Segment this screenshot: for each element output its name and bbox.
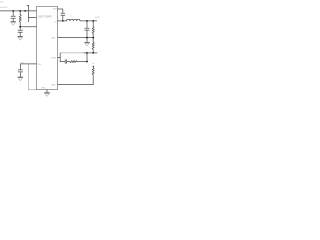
node dot out 1 (86, 20, 88, 22)
node dot rail 3 (24, 10, 26, 12)
ground (C4) (85, 42, 90, 46)
svg-text:GND: GND (41, 88, 46, 90)
wire COMP pin (58, 56, 61, 58)
wire FB rail (58, 37, 94, 39)
ground (C1) (11, 22, 16, 26)
wire GND rail bottom right (58, 84, 94, 86)
svg-text:SS: SS (38, 64, 41, 66)
node dot comp join (86, 52, 88, 54)
node dot rail 2 (19, 10, 21, 12)
resistor R4 comp (70, 61, 87, 63)
resistor R5 load (92, 68, 94, 85)
wire comp split (59, 53, 61, 62)
svg-text:GND: GND (51, 84, 56, 86)
wire STB pin2 (27, 5, 37, 22)
wire comp top (60, 52, 84, 54)
wire bottom GND pin (46, 90, 48, 93)
svg-text:VOUT: VOUT (95, 17, 100, 19)
capacitor C3 bootstrap (61, 13, 65, 21)
svg-text:COMP: COMP (51, 57, 57, 59)
resistor R1 input (19, 11, 21, 26)
wire SS pin (20, 63, 36, 65)
capacitor C1 input (11, 11, 15, 21)
capacitor C5 comp (60, 60, 70, 64)
svg-text:LX: LX (54, 21, 57, 23)
wire output (80, 20, 97, 22)
svg-text:Vcc=12V: Vcc=12V (0, 7, 8, 9)
node dot LX (62, 20, 64, 22)
node dot out 2 (92, 20, 94, 22)
wire comp join (86, 53, 88, 62)
ground (C6) (18, 77, 23, 81)
wire BST pin (58, 9, 63, 13)
wire LX pin (58, 20, 67, 22)
node dot rail 1 (12, 10, 14, 12)
capacitor C2 (18, 27, 22, 36)
node dot FB cross (86, 37, 88, 39)
svg-text:Vcc: Vcc (0, 2, 5, 4)
arrow Io (92, 66, 94, 68)
ground (C2) (18, 37, 23, 41)
inductor L1 (67, 19, 81, 21)
resistor R3 feedback bottom (92, 38, 94, 53)
svg-text:Css: Css (21, 62, 24, 64)
wire SS return (28, 64, 36, 90)
ground (IC) (44, 93, 50, 97)
capacitor C6 soft start (18, 64, 22, 77)
svg-text:GND: GND (51, 37, 56, 39)
node dot R1 bottom (19, 26, 21, 28)
svg-text:BD9778HFP: BD9778HFP (38, 16, 52, 19)
svg-text:Io: Io (93, 63, 96, 65)
IC U1 box (37, 6, 58, 89)
svg-text:BST: BST (53, 9, 58, 11)
wire top input rail (0, 10, 37, 12)
resistor R2 feedback top (92, 21, 94, 38)
node dot comp cap join (86, 61, 88, 63)
node dot FB end (92, 37, 94, 39)
wire STB hook (27, 4, 29, 6)
node dot divider bottom (92, 52, 94, 54)
capacitor C4 output (85, 21, 89, 42)
svg-text:L1: L1 (71, 15, 73, 17)
wire pin3 (20, 26, 36, 28)
